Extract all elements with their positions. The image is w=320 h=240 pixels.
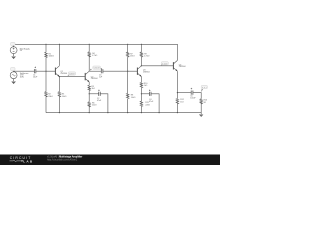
resistor R2 [45, 71, 47, 92]
svg-text:CIRCUIT: CIRCUIT [10, 156, 32, 160]
svg-text:R7: R7 [130, 53, 132, 55]
annotation flags [11, 42, 208, 92]
wire +V top rail [14, 44, 178, 60]
svg-text:R4: R4 [92, 53, 94, 55]
svg-text:1kO: 1kO [92, 88, 96, 90]
capacitor C1 [33, 69, 35, 73]
wire Q2 collector node right to C3 [89, 70, 101, 72]
CircuitLab logo [10, 156, 34, 164]
svg-text:1kO: 1kO [180, 102, 184, 104]
transistor Q1 [55, 66, 59, 77]
transistor Q2 [85, 71, 89, 82]
ground for V1 [12, 57, 16, 59]
svg-text:1.23mV: 1.23mV [69, 73, 75, 75]
svg-text:R3: R3 [62, 93, 64, 95]
flag V1 [12, 46, 15, 48]
resistor R8 divider bottom [127, 71, 129, 93]
transistor Q3 [137, 66, 141, 77]
wire Q3 emitter down [140, 77, 142, 83]
svg-text:5.614V: 5.614V [94, 68, 101, 70]
svg-text:R2: R2 [48, 93, 50, 95]
wire Q1 emitter down [58, 77, 60, 92]
capacitor C4 bypass [149, 92, 151, 96]
voltage source V2 [10, 72, 17, 79]
flag V2 [12, 71, 15, 73]
wire Q1 emitter to Q2 base [59, 76, 85, 78]
wire Q1 collector to rail [58, 44, 60, 66]
svg-text:v1.0(us4) | Multistage Amplifi: v1.0(us4) | Multistage Amplifier [47, 155, 82, 158]
svg-text:R11: R11 [145, 102, 148, 104]
resistor R7 divider top [127, 44, 129, 52]
resistor R3 emitter Q1 [58, 92, 61, 97]
svg-text:1kHz: 1kHz [20, 76, 24, 78]
svg-text:R6: R6 [92, 102, 94, 104]
svg-text:2N3904: 2N3904 [91, 78, 98, 80]
capacitor C3 coupling [100, 69, 102, 73]
wire output node right to C5 [177, 92, 191, 94]
svg-text:LAB: LAB [23, 160, 33, 164]
wire C5 to load corner [193, 93, 201, 99]
flag node Q2 collector [90, 69, 92, 71]
svg-text:47kO: 47kO [130, 56, 135, 58]
wire mid node right to bypass cap C2 [89, 93, 99, 95]
svg-text:C4: C4 [149, 99, 151, 101]
svg-text:C5: C5 [190, 95, 192, 97]
svg-text:220O: 220O [92, 105, 97, 107]
svg-text:10kO: 10kO [131, 97, 136, 99]
svg-text:C2: C2 [97, 98, 99, 100]
svg-text:2N3904: 2N3904 [179, 66, 186, 68]
svg-text:http://circuitlab.com/c45sm2: http://circuitlab.com/c45sm2 [47, 158, 78, 161]
resistor R6 emitter lower [88, 102, 91, 107]
svg-text:R10: R10 [144, 83, 147, 85]
junction dots [45, 44, 178, 114]
wire Q3 collector node to Q4 base [141, 65, 173, 67]
component labels (scaled text) [20, 48, 207, 106]
wire mid node right to bypass cap C4 [141, 93, 149, 95]
resistor R10 emitter upper [140, 83, 143, 88]
svg-text:R5: R5 [92, 86, 94, 88]
svg-text:100uF: 100uF [190, 98, 196, 100]
svg-text:R13: R13 [204, 100, 207, 102]
transistor Q4 [173, 60, 177, 71]
svg-text:R8: R8 [131, 95, 133, 97]
wire Q2 emitter down [88, 82, 90, 85]
resistor R12 emitter Q4 [176, 99, 179, 104]
wire C4 to corner and down to rail [151, 94, 159, 113]
resistor R4 collector Q2 [88, 44, 90, 52]
resistor R1 [45, 44, 47, 52]
flag node output [201, 89, 202, 92]
wire Q4 emitter down [176, 71, 178, 98]
svg-text:4.01V: 4.01V [162, 63, 168, 65]
svg-text:10kO: 10kO [62, 96, 67, 98]
resistor R9 collector Q3 [140, 44, 142, 52]
footer bar [0, 154, 220, 165]
resistor R13 load [200, 99, 203, 104]
wire C3 to divider node and Q3 base [103, 70, 137, 72]
svg-text:220O: 220O [145, 104, 150, 106]
svg-text:4.7kO: 4.7kO [144, 56, 150, 58]
footer text [47, 155, 82, 161]
capacitor C5 output coupling [190, 91, 192, 95]
svg-text:R12: R12 [180, 99, 183, 101]
ground main [199, 114, 203, 116]
resistor R5 emitter upper [88, 85, 91, 90]
wire C2 to corner and down to rail [100, 94, 108, 113]
wire input from V2 to C1 [14, 70, 35, 72]
flag node Q1 emitter [68, 75, 70, 77]
svg-text:2N3904: 2N3904 [143, 71, 150, 73]
polarity marks electrolytic caps [35, 67, 193, 92]
svg-text:100kO: 100kO [49, 56, 55, 58]
capacitor C2 bypass [98, 92, 100, 96]
ground for V2 [12, 82, 16, 84]
voltage source V1 [10, 47, 17, 54]
flag node Q3 collector [161, 64, 163, 66]
svg-text:R1: R1 [49, 53, 51, 55]
resistor R11 emitter lower [140, 101, 143, 106]
wire ground bottom rail [46, 112, 201, 114]
svg-text:33kO: 33kO [48, 96, 53, 98]
svg-text:4.7kO: 4.7kO [92, 55, 98, 57]
svg-text:R9: R9 [144, 53, 146, 55]
wire C1 to divider node and Q1 base [36, 70, 56, 72]
svg-text:1kO: 1kO [144, 85, 148, 87]
svg-text:2N3904: 2N3904 [60, 73, 67, 75]
